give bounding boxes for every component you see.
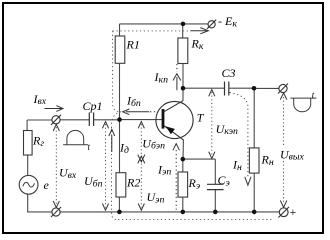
wire: R1 branch top (119, 24, 121, 36)
node top junction (181, 22, 186, 27)
arrow Iн with dashed path from C3 (230, 93, 252, 186)
transistor emitter arrow (pnp) (166, 126, 175, 134)
arrow Iвх (45, 106, 64, 112)
resistor R2 (116, 173, 126, 197)
resistor Rк (178, 38, 188, 64)
capacitor Cэ (207, 184, 224, 189)
resistor Rг (24, 131, 33, 156)
node emitter junction (181, 157, 186, 162)
wire: R1 to base node (119, 63, 121, 120)
wire: input top from left corner to input terminal (27, 119, 52, 121)
svg-text:e: e (44, 178, 50, 192)
wire: left vertical down to Rg (26, 120, 28, 131)
wire: Rэ to ground (182, 197, 184, 212)
node output junction (252, 86, 257, 91)
wire: emitter node to Cэ branch (183, 158, 216, 160)
svg-text:+: + (289, 205, 297, 219)
resistor Rн (249, 148, 259, 173)
wire: source to bottom rail (27, 194, 29, 212)
wire: Rk bottom to collector node (182, 64, 184, 89)
dashed left lower (112, 112, 122, 220)
wire: emitter vertical to emitter node (182, 140, 184, 159)
wire: input terminal to Cp1 (60, 119, 89, 121)
capacitor C3 (225, 82, 229, 96)
ground rail junction dots (117, 210, 122, 215)
wire: output node down to Rн (253, 88, 255, 147)
dashed top (113, 30, 190, 32)
terminal + bottom right (279, 208, 288, 217)
transistor T circle (156, 101, 193, 138)
input terminal bottom (52, 208, 60, 216)
wire: Cэ bottom plate to ground (214, 190, 216, 212)
dimension Uбэп / Uэп (138, 122, 145, 211)
svg-text:R2: R2 (126, 176, 140, 190)
wire: top rail (120, 23, 209, 25)
wire: Rk top (182, 24, 184, 38)
waveform output (290, 98, 316, 112)
resistor Rэ (178, 172, 188, 197)
resistor R1 (115, 36, 125, 63)
dimension Uкэп (209, 90, 215, 159)
node base junction (117, 117, 122, 122)
wire: collector node into transistor (182, 88, 184, 101)
wire: Cp1 to base node (94, 119, 120, 121)
wire: Cэ branch down to top plate (214, 159, 216, 184)
dashed bias loop (112, 31, 273, 220)
svg-text:R1: R1 (126, 37, 140, 51)
arrow Iкп (173, 64, 181, 90)
dashed bottom (118, 219, 273, 221)
svg-text:C3: C3 (222, 66, 236, 80)
dimension Uбп (102, 122, 108, 211)
arrow to -Eк (bias current exit) (190, 28, 208, 34)
wire: Rg to source (27, 155, 29, 175)
transistor emitter lead (164, 126, 184, 140)
arrow Iд on dashed line (109, 129, 115, 152)
wire: emitter node to Rэ (182, 159, 184, 172)
AC source e (19, 175, 38, 194)
arrow Iбп (123, 109, 159, 115)
wire: R2 to ground (118, 197, 120, 212)
transistor collector lead (164, 101, 183, 112)
svg-text:Cp1: Cp1 (83, 99, 103, 113)
wire: collector node to C3 (183, 87, 225, 89)
input terminal top (52, 116, 60, 124)
wire: output node to output terminal (254, 87, 279, 89)
wire: ground rail (27, 211, 280, 213)
waveform input (63, 130, 88, 144)
wire: base node to transistor base (120, 119, 162, 121)
wire: base node down to R2 (119, 120, 121, 173)
node collector junction (181, 86, 186, 91)
transistor base bar (162, 109, 165, 129)
dashed left upper (113, 31, 121, 112)
arrow Iэп (173, 144, 180, 211)
terminal -Eк (208, 21, 215, 28)
dimension Uвых (280, 93, 287, 207)
wire: Rн to ground (253, 173, 255, 212)
dimension Uвх (53, 124, 59, 207)
capacitor Cp1 (89, 113, 93, 127)
wire: C3 to output node (229, 87, 254, 89)
output terminal (279, 84, 287, 92)
